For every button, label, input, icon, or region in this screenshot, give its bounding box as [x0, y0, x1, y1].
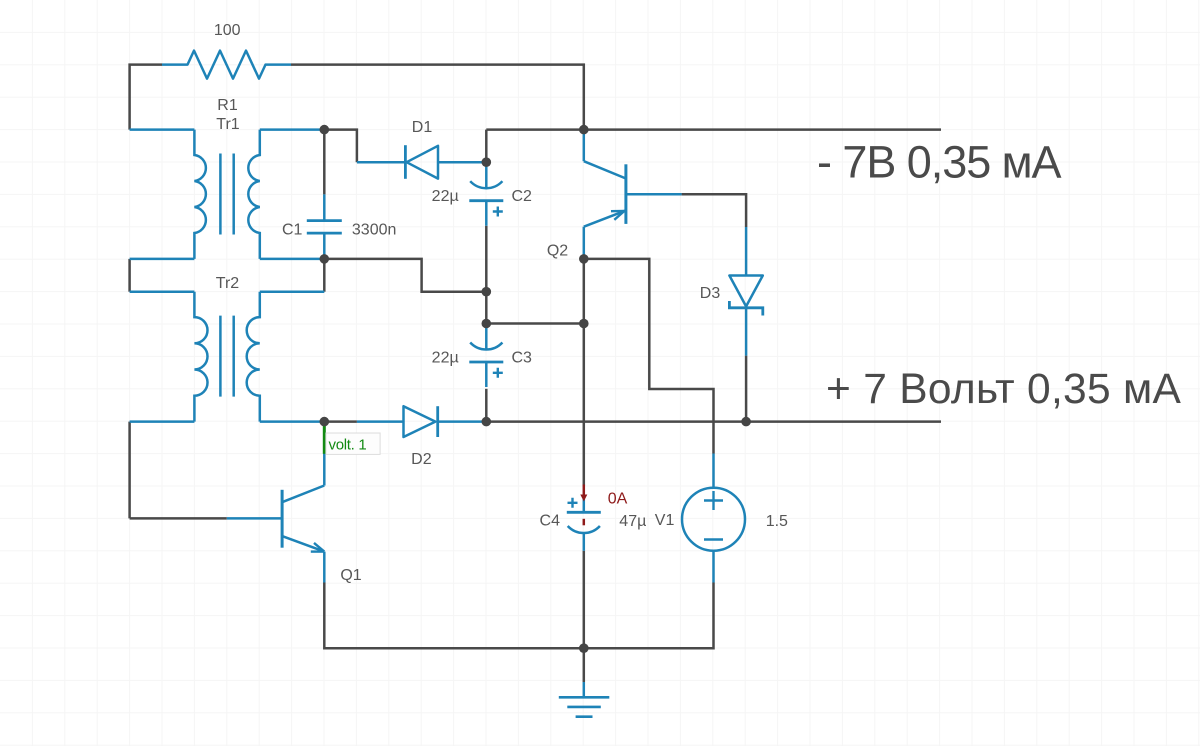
svg-text:100: 100: [214, 22, 241, 39]
wire node B stub to D2: [324, 420, 357, 423]
probe marker volt.1: [323, 426, 326, 454]
svg-text:1.5: 1.5: [766, 513, 788, 530]
wire V1 bottom to ground row: [584, 583, 714, 649]
svg-text:47µ: 47µ: [619, 513, 646, 530]
voltage source V1: [712, 454, 715, 488]
svg-text:D1: D1: [412, 119, 433, 136]
svg-text:volt. 1: volt. 1: [329, 437, 367, 454]
wire left rail Tr1-Tr2 step: [128, 259, 131, 292]
svg-text:Q2: Q2: [547, 242, 568, 259]
node row10/Q2-line junction: [579, 319, 589, 329]
wire C1 top lead: [323, 130, 326, 195]
node D3/+7V junction: [741, 417, 751, 427]
wire D3 bottom lead: [745, 356, 748, 422]
transistor Q1: [227, 517, 282, 520]
svg-text:C1: C1: [282, 221, 303, 238]
wire -7V rail: [486, 128, 941, 131]
transistor Q2: [583, 130, 586, 162]
wire Q2 base to D3: [682, 194, 747, 227]
wire Tr2 top right vertical: [323, 259, 326, 292]
wire left rail top corner: [130, 65, 162, 130]
node C2-bottom junction: [482, 287, 492, 297]
node Tr1-top/C1/R1 junction: [320, 125, 330, 135]
capacitor C2: [485, 162, 488, 188]
diode D3: [745, 227, 748, 276]
svg-text:Q1: Q1: [340, 567, 361, 584]
wire C2 node to C3 node: [485, 292, 488, 324]
svg-text:C4: C4: [540, 512, 561, 529]
node ground junction: [579, 643, 589, 653]
svg-text:D3: D3: [700, 285, 721, 302]
node C3-top junction: [482, 319, 492, 329]
node resistor/rail junction: [579, 125, 589, 135]
diode D1: [357, 161, 404, 164]
wire resistor output to top-right corner: [291, 65, 584, 130]
capacitor C1: [323, 194, 326, 220]
wire Q1 emitter to ground row: [324, 583, 584, 649]
wire Q1 base: [130, 517, 227, 520]
svg-text:R1: R1: [217, 97, 238, 114]
wire Q2 emitter node down: [583, 259, 586, 324]
resistor R1: [162, 51, 291, 79]
wire Q2 emitter node to V1 top: [584, 259, 714, 454]
wire Tr1 bottom to C2 node: [324, 259, 486, 292]
wire node row10: [486, 322, 584, 325]
svg-text:V1: V1: [655, 512, 675, 529]
capacitor C4: [583, 499, 586, 512]
node Tr2-bottom/probe junction: [320, 417, 330, 427]
ground: [583, 682, 586, 697]
svg-text:- 7В 0,35 мА: - 7В 0,35 мА: [817, 137, 1062, 188]
wire C2 bottom lead: [485, 226, 488, 292]
wire rail corner down to D1 node: [485, 130, 488, 163]
node Tr1-bottom/C1 junction: [320, 254, 330, 264]
current arrow C4: [583, 485, 586, 496]
wire left rail Tr2 to Q1: [128, 422, 131, 519]
node Q2-emitter junction: [579, 254, 589, 264]
wire C3 bottom lead: [485, 389, 488, 422]
svg-text:22µ: 22µ: [432, 188, 459, 205]
node D1/C2 junction: [482, 157, 492, 167]
svg-text:0A: 0A: [608, 490, 628, 507]
probe label box volt.1: [326, 433, 380, 454]
svg-text:Tr1: Tr1: [216, 116, 240, 133]
svg-text:D2: D2: [411, 451, 432, 468]
diode D2: [357, 420, 404, 423]
capacitor C3: [485, 324, 488, 350]
transformer Tr2: [130, 290, 195, 293]
wire node A stub to D1: [324, 130, 357, 163]
svg-text:+ 7 Вольт 0,35 мА: + 7 Вольт 0,35 мА: [826, 366, 1182, 413]
svg-text:C3: C3: [512, 350, 533, 367]
svg-text:C2: C2: [512, 188, 533, 205]
node D2/C3 junction: [482, 417, 492, 427]
transformer Tr1: [130, 128, 195, 131]
svg-text:22µ: 22µ: [432, 350, 459, 367]
wire C4 top lead: [583, 324, 586, 486]
wire +7V rail: [486, 420, 941, 423]
svg-text:Tr2: Tr2: [216, 275, 240, 292]
wire C4 bottom lead: [583, 551, 586, 648]
svg-text:3300n: 3300n: [352, 222, 397, 239]
wire ground stub: [583, 648, 586, 682]
